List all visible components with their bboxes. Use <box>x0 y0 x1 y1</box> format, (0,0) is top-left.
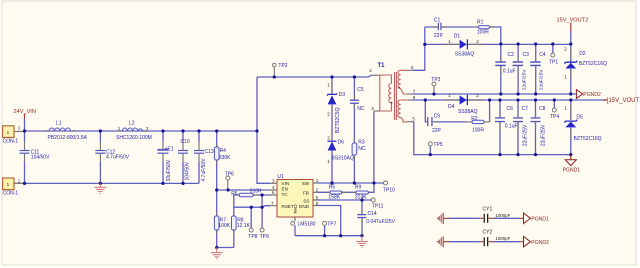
svg-text:VIN: VIN <box>282 181 290 186</box>
svg-text:C6: C6 <box>507 106 514 112</box>
svg-text:TP8: TP8 <box>248 234 257 240</box>
svg-text:GND: GND <box>299 204 310 209</box>
svg-text:22uF/25V: 22uF/25V <box>540 124 546 146</box>
svg-text:1000pF: 1000pF <box>495 213 510 218</box>
svg-text:15V_VOUT2: 15V_VOUT2 <box>557 17 589 23</box>
svg-text:R2: R2 <box>471 116 478 122</box>
svg-text:22uF/25V: 22uF/25V <box>523 124 529 146</box>
svg-text:SS38AQ: SS38AQ <box>455 52 475 58</box>
svg-text:BZT52C16Q: BZT52C16Q <box>579 61 607 67</box>
svg-text:R6: R6 <box>231 191 238 197</box>
svg-text:PGND1: PGND1 <box>531 217 549 223</box>
svg-text:FB: FB <box>303 191 309 196</box>
svg-text:100K: 100K <box>218 223 230 229</box>
svg-text:104/50V: 104/50V <box>31 155 50 161</box>
svg-text:CON-1: CON-1 <box>3 138 19 144</box>
svg-text:C8: C8 <box>539 106 546 112</box>
svg-text:C1: C1 <box>434 17 441 23</box>
svg-text:4.7uF/50V: 4.7uF/50V <box>106 155 130 161</box>
svg-text:158K: 158K <box>328 194 340 200</box>
svg-text:C9: C9 <box>434 114 441 120</box>
svg-text:PGND2: PGND2 <box>583 92 601 98</box>
svg-text:C2: C2 <box>508 52 515 58</box>
svg-text:CY1: CY1 <box>483 206 493 212</box>
svg-text:24V_VIN: 24V_VIN <box>14 109 36 115</box>
svg-text:U1: U1 <box>277 174 284 180</box>
svg-text:[15V_VOUT1: [15V_VOUT1 <box>607 98 640 104</box>
svg-text:SHC1260-100M: SHC1260-100M <box>116 135 152 141</box>
svg-text:330K: 330K <box>219 155 231 161</box>
svg-text:C10: C10 <box>181 139 190 145</box>
svg-text:33uF/50V: 33uF/50V <box>166 159 172 181</box>
svg-text:PGND2: PGND2 <box>531 240 549 246</box>
svg-text:CY2: CY2 <box>483 230 493 236</box>
svg-text:22uF/25V: 22uF/25V <box>539 69 545 91</box>
svg-text:C3: C3 <box>523 52 530 58</box>
svg-text:1: 1 <box>7 130 10 135</box>
svg-text:TP6: TP6 <box>225 172 234 178</box>
svg-text:TP9: TP9 <box>260 234 269 240</box>
svg-text:SS: SS <box>303 198 309 203</box>
svg-text:PGND1: PGND1 <box>563 168 581 174</box>
svg-text:BS310AQ: BS310AQ <box>332 155 354 161</box>
svg-text:R4: R4 <box>220 148 227 154</box>
svg-text:R1: R1 <box>477 20 484 26</box>
svg-text:22P: 22P <box>434 33 444 39</box>
svg-text:0.1uF: 0.1uF <box>503 69 516 75</box>
svg-text:R5: R5 <box>329 185 336 191</box>
svg-text:TP2: TP2 <box>278 63 287 69</box>
svg-text:PB2012-800/1.5A: PB2012-800/1.5A <box>48 135 88 141</box>
svg-text:EN: EN <box>282 187 288 192</box>
svg-text:T1: T1 <box>378 63 386 69</box>
svg-text:1000pF: 1000pF <box>495 236 510 241</box>
svg-text:D4: D4 <box>448 104 455 110</box>
svg-text:NC: NC <box>357 106 365 112</box>
svg-text:12.1K: 12.1K <box>237 223 251 229</box>
svg-text:BZT52C5Q: BZT52C5Q <box>335 107 341 132</box>
svg-text:D1: D1 <box>454 33 461 39</box>
svg-text:D5: D5 <box>576 114 583 120</box>
svg-text:NC: NC <box>358 146 366 152</box>
svg-text:R3: R3 <box>358 139 365 145</box>
svg-text:C13: C13 <box>205 149 214 155</box>
svg-text:510K: 510K <box>250 189 262 195</box>
svg-text:L2: L2 <box>129 120 135 126</box>
svg-text:4.7uF/50V: 4.7uF/50V <box>201 158 207 182</box>
svg-text:22P: 22P <box>432 128 442 134</box>
svg-text:SW: SW <box>302 181 310 186</box>
svg-text:TP10: TP10 <box>383 187 395 193</box>
svg-text:SS38AQ: SS38AQ <box>458 109 478 115</box>
svg-text:D2: D2 <box>579 51 586 57</box>
svg-text:PAD: PAD <box>293 204 298 214</box>
svg-text:C4: C4 <box>539 52 546 58</box>
svg-text:LM5180: LM5180 <box>298 222 316 228</box>
svg-text:TP4: TP4 <box>550 114 559 120</box>
svg-text:C7: C7 <box>522 106 529 112</box>
svg-text:+E1: +E1 <box>165 146 174 152</box>
svg-text:TP1: TP1 <box>549 60 558 66</box>
svg-text:TP5: TP5 <box>434 142 443 148</box>
svg-text:C14: C14 <box>368 211 377 217</box>
svg-text:TC: TC <box>282 192 289 197</box>
svg-text:R9: R9 <box>355 185 362 191</box>
svg-text:L1: L1 <box>56 120 62 126</box>
svg-text:0.1uF: 0.1uF <box>505 124 518 130</box>
svg-text:TP7: TP7 <box>327 222 336 228</box>
svg-text:22uF/25V: 22uF/25V <box>521 69 527 91</box>
svg-text:100R: 100R <box>477 29 489 35</box>
svg-text:314K: 314K <box>355 194 367 200</box>
svg-text:BZT52C16Q: BZT52C16Q <box>574 136 602 142</box>
svg-text:1: 1 <box>7 182 10 187</box>
svg-text:TP11: TP11 <box>372 204 384 210</box>
svg-text:0.047uF/25V: 0.047uF/25V <box>366 219 395 225</box>
svg-text:CON-1: CON-1 <box>3 191 19 197</box>
svg-text:C5: C5 <box>357 87 364 93</box>
svg-text:100R: 100R <box>472 127 484 133</box>
svg-text:104/50V: 104/50V <box>184 161 190 180</box>
svg-text:D3: D3 <box>339 92 346 98</box>
svg-text:TP3: TP3 <box>431 77 440 83</box>
svg-text:D6: D6 <box>338 139 345 145</box>
